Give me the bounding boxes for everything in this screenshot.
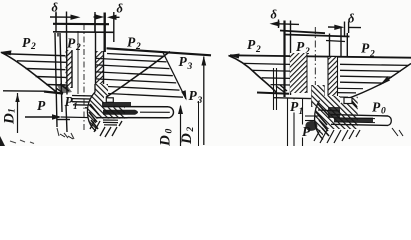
- flow line rd-left 1: [244, 63, 290, 64]
- svg-text:P: P: [127, 35, 136, 50]
- head tube rounded cap: [388, 116, 391, 125]
- flow line left 2: [17, 61, 66, 63]
- dimension line delta-left with right arrow: [50, 15, 81, 20]
- elbow body hatched right diagram: [312, 85, 325, 107]
- svg-text:P: P: [361, 41, 370, 56]
- bore dark nose: [103, 110, 138, 115]
- svg-text:2: 2: [369, 50, 375, 60]
- tick delta4 b: [348, 22, 350, 34]
- scan specks bottom-right: [392, 128, 403, 136]
- inner bore lines: [334, 117, 375, 120]
- flange top line: [53, 23, 109, 26]
- tick left slot inner: [66, 12, 68, 26]
- cone curve right diagram: [229, 56, 277, 93]
- svg-text:D: D: [158, 135, 174, 146]
- step line above tube right diagram: [318, 110, 340, 111]
- leader arrow left fan: [0, 50, 12, 55]
- flow line rd-right 2: [340, 70, 401, 71]
- tap box right diagram: [344, 98, 352, 104]
- svg-text:1: 1: [73, 102, 78, 112]
- chamber wall right mid: [329, 34, 331, 58]
- flow line rd-right 3: [340, 75, 392, 78]
- label P1 backing: [63, 95, 77, 108]
- flow line right 4: [96, 72, 173, 76]
- centerline right diagram: [314, 27, 316, 100]
- flow line rd-right 4: [340, 81, 384, 84]
- svg-text:3: 3: [187, 62, 193, 72]
- hatched nozzle wall right: [96, 32, 104, 91]
- crossing marks below cone curve: [276, 85, 287, 92]
- label P1 backing right diagram: [289, 100, 303, 113]
- svg-text:P: P: [37, 98, 46, 113]
- head tube top edge: [331, 115, 388, 116]
- svg-text:P: P: [179, 54, 188, 69]
- boss extra shading right: [316, 101, 357, 136]
- small tick below flange: [57, 33, 59, 37]
- tick mid slot: [94, 12, 96, 32]
- svg-text:0: 0: [381, 107, 386, 117]
- stem wall inner lower: [66, 105, 67, 132]
- dimension D2 vertical with up arrow: [201, 56, 206, 145]
- stem bottom marks: [57, 128, 74, 139]
- hatched nozzle wall left: [66, 25, 73, 96]
- chamber wall right inner: [340, 28, 342, 58]
- extension line thin: [198, 101, 200, 146]
- dim delta4 right segment: [349, 26, 361, 28]
- hatch below tube: [90, 120, 122, 137]
- flow line right 6: [100, 86, 180, 90]
- centerline dashed: [83, 24, 85, 130]
- tick delta3: [278, 20, 280, 29]
- fan boundary slant with arrow: [163, 52, 187, 101]
- stem outer wall left b: [60, 33, 62, 112]
- top flow line left fan: [4, 54, 66, 56]
- flow line rd-right 1: [340, 64, 409, 65]
- svg-text:P: P: [247, 37, 256, 52]
- svg-text:δ: δ: [117, 1, 124, 15]
- svg-text:2: 2: [255, 45, 261, 55]
- flange mid wall: [94, 14, 96, 32]
- elbow top thick line: [44, 92, 63, 94]
- svg-text:2: 2: [186, 127, 196, 133]
- flange right outer wall: [103, 13, 105, 53]
- chamber wall right outer: [346, 33, 348, 57]
- label P backing right diagram: [301, 125, 313, 138]
- svg-text:D: D: [2, 113, 18, 125]
- top line right fan: [107, 48, 212, 55]
- flange bottom line: [53, 31, 115, 34]
- svg-text:δ: δ: [271, 7, 278, 21]
- boss extra shading: [89, 104, 99, 129]
- head tube inner dark: [334, 118, 373, 123]
- svg-text:1: 1: [8, 108, 18, 113]
- svg-text:3: 3: [197, 96, 203, 106]
- flow line left 4: [36, 76, 66, 79]
- impulse tube wall a: [273, 68, 275, 110]
- chamber bottom line 2: [274, 97, 311, 100]
- bend dark block: [328, 107, 340, 118]
- scan specks bottom-left: [10, 140, 34, 144]
- flow line right 3: [96, 65, 170, 69]
- svg-text:1: 1: [299, 107, 304, 117]
- flow line left 3: [26, 69, 66, 70]
- impulse tube 1: [287, 98, 289, 146]
- dark corner under band A: [56, 84, 72, 94]
- svg-text:δ: δ: [52, 1, 59, 15]
- bottom step lines: [103, 120, 118, 125]
- stem foot line: [57, 119, 70, 121]
- flow line rd-right 6: [337, 92, 356, 94]
- dim delta3 arrow left: [270, 21, 300, 26]
- boss hatched mass right diagram: [312, 85, 358, 140]
- arrow P pointing right: [25, 114, 62, 119]
- dimension line mid with right arrow: [94, 14, 105, 19]
- svg-text:2: 2: [30, 42, 36, 52]
- impulse tube 3: [302, 98, 304, 146]
- inner flange line right: [326, 41, 345, 42]
- flow line rd-left 2: [252, 69, 290, 72]
- svg-text:P: P: [296, 39, 305, 54]
- dark blob bend lower left: [305, 121, 317, 131]
- flange top line 1: [280, 31, 325, 34]
- hatched wall B right diagram: [328, 57, 338, 98]
- flow line left 5: [46, 84, 66, 87]
- chamber wall left thick: [283, 21, 285, 98]
- flow line right 1: [107, 54, 164, 57]
- head tube bottom edge: [331, 124, 388, 125]
- boss hatched mass: [87, 84, 125, 131]
- flow line rd-left 4: [271, 84, 291, 86]
- cone curve left fan: [1, 52, 57, 92]
- tick left slot outer: [55, 12, 57, 25]
- flow line rd-left 3: [262, 77, 290, 80]
- svg-text:P: P: [22, 35, 31, 50]
- flow line right 5: [96, 79, 176, 83]
- flow line rd-right 7: [337, 96, 348, 98]
- dim delta4 left segment arrow right: [328, 25, 344, 30]
- step block above tube: [102, 102, 131, 107]
- long mid line spanning right diagram: [230, 55, 411, 57]
- tap box: [106, 98, 113, 103]
- tube bottom extension line: [61, 116, 100, 119]
- flow line right 7: [108, 94, 183, 98]
- nozzle tube bottom edge: [96, 117, 168, 119]
- scan artifact bottom-left: [0, 136, 5, 146]
- svg-text:P: P: [67, 36, 76, 51]
- dimension D1 vertical with up arrow: [15, 93, 19, 133]
- tick right slot: [113, 12, 115, 42]
- svg-text:D: D: [179, 133, 195, 145]
- flow line rd-right 5: [337, 87, 363, 89]
- flow line right 2: [96, 58, 167, 62]
- bottom specks: [60, 134, 73, 139]
- dimension line delta-right with left arrow: [107, 15, 120, 20]
- right fan boundary curve with arrow: [344, 64, 411, 101]
- stem outer wall left a: [55, 33, 57, 127]
- chamber bottom thick line: [257, 93, 289, 94]
- hatch below head tube: [314, 130, 360, 143]
- impulse tube wall b: [276, 68, 278, 110]
- bore wall thin: [77, 31, 79, 94]
- flange top line 2: [284, 35, 350, 37]
- hatched wall A right diagram: [290, 53, 307, 93]
- dimension D0 vertical with up arrow: [178, 105, 183, 147]
- nozzle tube rounded cap: [168, 107, 174, 118]
- svg-text:0: 0: [165, 129, 175, 134]
- nozzle tube top edge: [103, 106, 168, 108]
- chamber wall left inner: [290, 21, 292, 96]
- elbow bend hatch lines: [72, 96, 104, 109]
- svg-text:P: P: [372, 100, 381, 115]
- leader line to throat: [106, 52, 170, 98]
- leader arrow left fan right diagram: [228, 54, 240, 59]
- flange left outer wall: [55, 13, 57, 32]
- svg-text:P: P: [189, 88, 198, 103]
- tick delta4 a: [344, 22, 346, 37]
- reference line D1: [3, 90, 44, 92]
- connection stub lines: [305, 116, 319, 121]
- bore center line: [140, 111, 170, 113]
- impulse tube 2: [293, 98, 295, 146]
